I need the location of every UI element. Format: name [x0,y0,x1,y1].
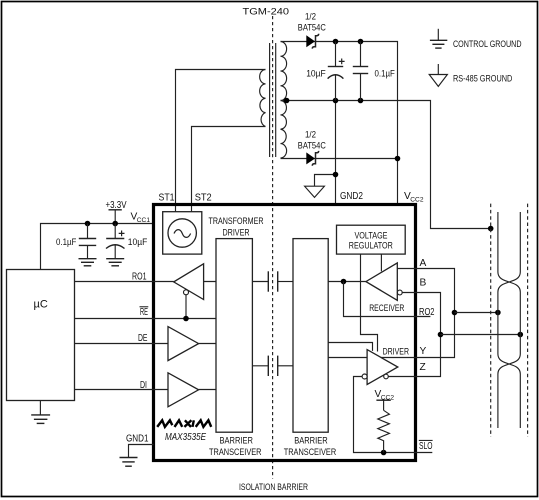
svg-text:µC: µC [34,299,48,311]
wire driver second input [328,343,372,351]
svg-text:DRIVER: DRIVER [383,346,409,357]
svg-text:ISOLATION BARRIER: ISOLATION BARRIER [239,482,308,493]
transformer T1 core [269,43,271,157]
svg-text:DRIVER: DRIVER [223,227,250,238]
overline SLO [419,439,433,441]
node cable conductor B [518,332,524,338]
wire B to cable conductor [441,334,521,336]
node A to cable [452,310,458,316]
node center tap [284,98,290,104]
wire VR to driver [361,254,378,351]
svg-text:RO2: RO2 [419,307,435,318]
receiver triangle [366,263,397,300]
driver output Z bubble [384,374,389,379]
wire driver input [328,357,367,359]
op-amp U1 MAX3535E IC outline [154,205,416,461]
svg-text:TGM-240: TGM-240 [243,7,290,18]
svg-text:Y: Y [420,346,427,357]
driver enable bubble [362,374,367,379]
ground GND1 [120,458,138,467]
node VCC1 10uF [112,221,118,227]
svg-text:CC1: CC1 [137,217,151,224]
wire VR to receiver [380,254,382,271]
node 0.1uF top [358,39,364,45]
svg-text:DI: DI [140,380,147,391]
wire GND2 pin line [335,101,337,205]
svg-text:BARRIER: BARRIER [220,436,254,447]
wire A to cable conductor [455,312,498,314]
node 10uF top [333,39,339,45]
wire ST1 to primary top [176,70,266,212]
svg-text:TRANSCEIVER: TRANSCEIVER [284,447,337,458]
svg-text:RS-485 GROUND: RS-485 GROUND [453,73,512,84]
svg-text:TRANSCEIVER: TRANSCEIVER [209,447,262,458]
svg-text:BAT54C: BAT54C [298,140,326,151]
voltage regulator box [337,225,406,254]
svg-text:RE: RE [140,307,148,318]
transformer T1 primary winding [260,70,266,127]
wire secondary top to VCC2 rail [281,42,398,205]
capacitive coupling bottom [252,356,293,376]
node RE enable [183,316,189,322]
svg-text:Z: Z [420,362,426,373]
svg-text:0.1µF: 0.1µF [375,69,395,80]
wire receiver output to barrier [328,281,366,283]
wire RO2 [344,282,431,317]
driver triangle [367,350,398,385]
wire GND2 stub to RS-485 ground [315,175,336,187]
svg-text:TRANSFORMER: TRANSFORMER [209,216,264,227]
wire DI [75,389,217,391]
svg-text:MAX3535E: MAX3535E [165,432,207,443]
transformer T1 secondary winding bottom half [281,101,287,159]
svg-text:+3.3V: +3.3V [106,200,127,211]
svg-text:ST1: ST1 [159,192,175,203]
overline RE [140,306,149,308]
svg-text:CC2: CC2 [381,394,395,401]
node RO2 branch [341,279,347,285]
cable twisted pair conductor 2 [498,212,520,428]
ground under C1 [79,259,97,266]
wire net B [388,293,440,377]
capacitor C3 10uF [328,42,345,101]
svg-text:GND2: GND2 [340,191,363,202]
isolation barrier dashed line [272,16,274,479]
svg-text:10µF: 10µF [128,237,148,248]
wire DE [75,343,217,345]
svg-text:BARRIER: BARRIER [294,436,328,447]
logo MAXIM [157,420,211,427]
capacitor C4 0.1uF [353,42,368,101]
node D2 cathode VCC2 [395,156,401,162]
supply +3.3V tick [109,210,122,224]
svg-text:REGULATOR: REGULATOR [349,241,393,252]
buffer DI [168,373,199,407]
transformer driver block [163,212,202,254]
capacitor C1 0.1uF [79,224,96,259]
wire RO1 [75,281,217,283]
node GND2 stub [333,172,339,178]
svg-text:SLO: SLO [419,441,433,452]
wire GND2 center-tap rail to cable shield [281,101,491,229]
svg-text:B: B [420,278,427,289]
svg-text:GND1: GND1 [126,433,149,444]
ground under uC [31,401,50,424]
node 10uF bottom [333,98,339,104]
cable twisted pair conductor 1 [498,212,520,428]
node B to cable [438,332,444,338]
node 0.1uF bottom [358,98,364,104]
barrier transceiver 1 box [216,239,252,433]
svg-text:1/2: 1/2 [305,12,316,23]
node SLO resistor [381,450,387,456]
svg-text:CONTROL GROUND: CONTROL GROUND [453,39,522,50]
cable dashed jacket right [527,204,529,437]
node VCC1 0.1uF [85,221,91,227]
capacitive coupling top [252,271,293,291]
svg-text:A: A [420,258,427,269]
svg-text:1/2: 1/2 [305,129,316,140]
svg-text:BAT54C: BAT54C [298,23,326,34]
transformer T1 secondary winding top half [281,42,287,101]
cable dashed jacket left [490,204,492,437]
receiver input B bubble [397,290,402,295]
wire driver enable to SLO [354,377,433,453]
wire uC to VCC1 rail [41,224,154,270]
ground RS-485 legend symbol [429,64,447,86]
wire secondary bottom to diode D2 [281,158,398,160]
ground under C2 [106,259,124,266]
svg-text:DE: DE [138,333,148,344]
microcontroller box [7,270,75,401]
svg-text:CC2: CC2 [410,196,424,203]
diode D2 1/2 BAT54C [306,151,318,166]
wire GND1 [129,445,154,458]
wire net A [381,269,455,358]
diode D1 1/2 BAT54C [306,34,318,49]
node cable conductor A [495,310,501,316]
svg-text:ST2: ST2 [195,192,212,203]
svg-text:RO1: RO1 [132,272,147,283]
inverter RO1 [174,264,204,319]
ground RS-485 symbol under GND2 stub [305,186,325,197]
wire ST2 to primary bottom [192,127,266,212]
supply VCC2 tick above resistor [376,400,390,410]
wire RE [75,318,217,320]
svg-text:0.1µF: 0.1µF [56,237,76,248]
svg-text:RECEIVER: RECEIVER [369,303,404,314]
ground control legend symbol [430,29,447,48]
barrier transceiver 2 box [293,239,328,433]
resistor R1 slew pull-up [378,410,390,452]
capacitor C2 10uF [106,224,125,259]
node cable shield junction [488,226,494,232]
buffer DE [168,327,199,361]
svg-text:10µF: 10µF [306,69,326,80]
